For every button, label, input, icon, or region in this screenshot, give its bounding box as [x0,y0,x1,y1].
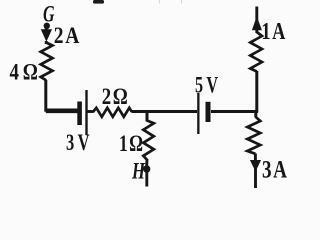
current arrow 1A upward [252,16,262,30]
wire junction to lower right resistor [254,112,257,118]
battery B1 3V positive plate (long thin) [85,90,87,135]
svg-text:1 A: 1 A [261,19,286,45]
resistor upper right zigzag [250,32,262,72]
wire arrow to upper right resistor [255,28,258,33]
current arrow 2A into node G [41,25,52,42]
svg-text:4 Ω: 4 Ω [10,60,38,85]
terminal wire top right [255,7,258,21]
wire 2ohm to battery 5V with junction node [132,110,198,113]
wire battery 3V to resistor 2ohm [88,110,94,113]
battery B2 5V positive plate (long thin) [197,93,199,134]
battery B2 5V negative plate (short thick) [206,102,211,122]
svg-text:2 A: 2 A [54,23,80,48]
svg-text:3 V: 3 V [66,130,90,155]
svg-text:1 Ω: 1 Ω [119,131,143,157]
battery B1 3V negative plate (short thick) [77,102,82,126]
current arrow 3A downward [250,154,261,172]
wire 1ohm to node H [145,159,148,166]
resistor R 1ohm zigzag [143,121,154,160]
wire 4ohm to corner to battery 3V negative plate [46,80,78,112]
wire upper right resistor to junction [255,71,258,113]
faint page artifact marks top [160,0,182,4]
node H dot [143,165,150,172]
svg-text:2 Ω: 2 Ω [102,84,128,109]
resistor lower right zigzag [247,117,260,154]
wire G-arrow to resistor 4ohm [45,41,48,44]
node G dot [44,23,50,29]
svg-text:5 V: 5 V [195,72,218,97]
wire battery 5V to right branch junction [211,110,258,113]
svg-text:3 A: 3 A [262,156,287,183]
svg-text:H: H [131,159,146,184]
page artifact dash top [93,0,104,4]
resistor R 2ohm zigzag [93,108,132,117]
wire junction stub down to 1ohm [146,112,149,122]
terminal wire bottom right [254,168,257,188]
resistor R 4ohm zigzag [41,43,53,81]
terminal wire below node H [145,169,148,187]
